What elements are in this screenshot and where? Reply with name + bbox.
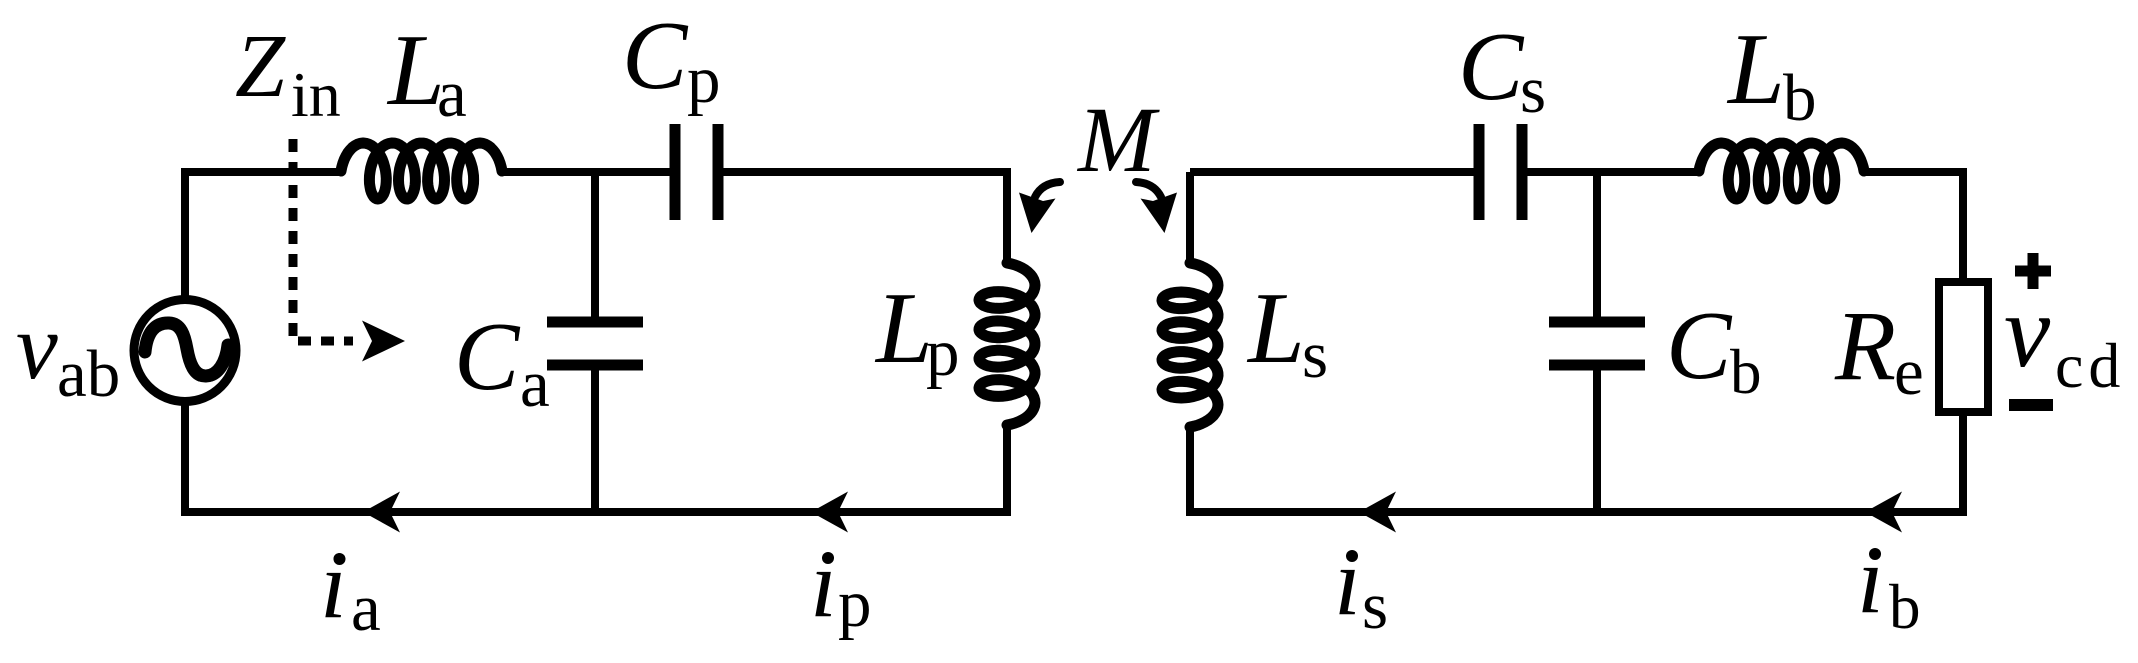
svg-text:a: a — [437, 57, 467, 131]
svg-text:Z: Z — [235, 17, 286, 116]
svg-text:a: a — [351, 571, 381, 645]
i dot is — [1346, 550, 1358, 562]
minus sign — [2009, 399, 2053, 411]
current arrow is — [1359, 492, 1396, 533]
svg-text:ab: ab — [57, 337, 120, 411]
inductor Lp — [979, 263, 1035, 425]
svg-text:M: M — [1076, 89, 1160, 192]
svg-text:e: e — [1894, 335, 1924, 409]
mutual arrow left head — [1019, 193, 1056, 234]
wire — [723, 172, 1007, 264]
svg-text:C: C — [1458, 13, 1525, 121]
svg-text:L: L — [386, 14, 445, 127]
wire — [1186, 172, 1194, 264]
svg-text:p: p — [687, 43, 721, 117]
svg-text:s: s — [1302, 318, 1328, 392]
svg-text:L: L — [874, 272, 933, 385]
source vab circle — [134, 300, 236, 402]
wire — [1526, 168, 1699, 176]
inductor La — [341, 143, 502, 199]
resistor Re — [1939, 282, 1988, 412]
svg-text:R: R — [1834, 290, 1896, 401]
svg-text:L: L — [1726, 13, 1785, 126]
Zin arrowhead — [362, 321, 405, 362]
svg-text:i: i — [320, 531, 347, 638]
wire — [502, 168, 670, 176]
svg-text:b: b — [1889, 572, 1921, 642]
wire — [185, 172, 341, 299]
svg-text:p: p — [838, 567, 872, 641]
wire — [185, 402, 1007, 512]
wire — [1190, 168, 1474, 176]
svg-text:b: b — [1783, 61, 1817, 135]
wire — [591, 172, 599, 322]
svg-text:C: C — [1666, 292, 1733, 400]
capacitor Ca — [547, 322, 643, 365]
inductor Lb — [1699, 143, 1864, 199]
current arrow ib — [1865, 492, 1902, 533]
i dot ib — [1869, 548, 1881, 560]
svg-text:C: C — [454, 303, 521, 411]
Zin dashed arrow — [293, 139, 353, 341]
source vab sine — [145, 323, 228, 376]
i dot ia — [334, 553, 346, 565]
svg-text:v: v — [16, 295, 58, 399]
current arrow ia — [363, 492, 400, 533]
mutual arrow left tail — [1035, 182, 1060, 197]
wire — [1190, 412, 1963, 512]
mutual arrow right head — [1141, 193, 1178, 234]
svg-text:s: s — [1362, 569, 1388, 643]
svg-text:in: in — [291, 59, 341, 130]
inductor Ls — [1162, 263, 1218, 427]
wire — [1593, 172, 1601, 322]
wire — [1864, 172, 1963, 282]
svg-text:v: v — [2004, 274, 2051, 389]
mutual arrow right tail — [1136, 182, 1161, 197]
current arrow ip — [811, 492, 848, 533]
svg-text:i: i — [1334, 528, 1361, 635]
i dot ip — [822, 552, 834, 564]
svg-text:C: C — [622, 2, 689, 110]
svg-text:cd: cd — [2055, 330, 2125, 401]
capacitor Cb — [1549, 322, 1645, 365]
svg-text:i: i — [810, 530, 837, 637]
svg-text:i: i — [1857, 526, 1884, 633]
wire — [1593, 365, 1601, 512]
plus sign — [2015, 253, 2051, 289]
capacitor Cs — [1479, 124, 1522, 220]
svg-text:p: p — [926, 316, 960, 390]
svg-text:a: a — [520, 347, 550, 421]
svg-text:b: b — [1730, 337, 1762, 407]
svg-text:L: L — [1246, 272, 1305, 385]
capacitor Cp — [675, 124, 718, 220]
wire — [591, 365, 599, 512]
svg-text:s: s — [1520, 53, 1546, 127]
